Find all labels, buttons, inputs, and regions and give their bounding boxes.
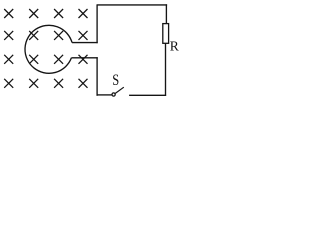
field symbol x r1c2 (29, 9, 38, 18)
field symbol x r4c1 (4, 79, 13, 88)
wire: left rail lower segment (96, 57, 98, 96)
field symbol x r4c2 (29, 79, 38, 88)
svg-text:R: R (170, 39, 180, 54)
switch S pivot terminal (112, 93, 115, 96)
wire: bottom lead from loop to left rail (71, 57, 97, 59)
field symbol x r2c1 (4, 31, 13, 40)
field symbol x r3c1 (4, 55, 13, 64)
field symbol x r2c4 (79, 31, 88, 40)
field symbol x r2c3 (54, 31, 63, 40)
wire: top horizontal (97, 4, 168, 6)
wire: bottom horizontal right of switch (129, 94, 166, 96)
field symbol x r4c3 (54, 79, 63, 88)
wire: right rail below resistor (165, 43, 167, 96)
field symbol x r1c1 (4, 9, 13, 18)
field symbol x r3c4 (79, 55, 88, 64)
resistor R (box) (163, 24, 169, 44)
field symbol x r2c2 (29, 31, 38, 40)
wire: bottom horizontal left of switch (97, 94, 112, 96)
coil loop (open circle) (25, 25, 72, 73)
field symbol x r1c3 (54, 9, 63, 18)
wire: top lead from loop to left rail (72, 42, 98, 44)
field symbol x r1c4 (79, 9, 88, 18)
wire: right rail above resistor (165, 4, 167, 23)
wire: left rail upper segment (96, 5, 98, 43)
field symbol x r4c4 (79, 79, 88, 88)
switch S lever (115, 87, 124, 93)
svg-text:S: S (112, 72, 119, 90)
field symbol x r3c2 (29, 55, 38, 64)
field symbol x r3c3 (54, 55, 63, 64)
